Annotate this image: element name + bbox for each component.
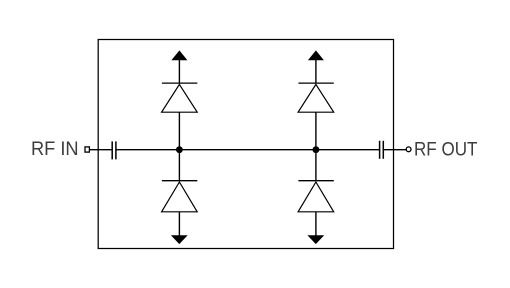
arrow terminal down (branch 1 bottom) (171, 235, 188, 244)
wire: C1 to node A and node B (116, 149, 380, 151)
diode D3 anode triangle (298, 84, 334, 112)
capacitor C2 (380, 141, 384, 159)
svg-text:RF IN: RF IN (31, 139, 79, 160)
wire: arrow to D1 cathode (178, 60, 180, 84)
wire: node A to D2 cathode (178, 150, 180, 181)
diode D4 cathode bar (298, 180, 333, 182)
wire: D1 anode to node A (178, 112, 180, 150)
package outline (98, 40, 393, 249)
arrow terminal up (branch 1 top) (171, 50, 187, 60)
capacitor C1 (112, 141, 116, 159)
wire: D2 anode to bottom arrow (178, 212, 180, 236)
node A (junction dot) (176, 146, 183, 153)
diode D1 cathode bar (162, 82, 197, 84)
wire: C2 to RF OUT pin (383, 149, 406, 151)
terminal RF OUT (round pin) (406, 147, 411, 152)
diode D2 anode triangle (162, 182, 198, 212)
diode D3 cathode bar (298, 82, 333, 84)
arrow terminal up (branch 2 top) (308, 50, 324, 60)
wire: RF IN pin to C1 (89, 149, 112, 151)
node B (junction dot) (313, 146, 320, 153)
diode D1 anode triangle (162, 84, 198, 112)
wire: D4 anode to bottom arrow (315, 212, 317, 236)
wire: D3 anode to node B (315, 112, 317, 150)
terminal RF IN (square pin) (85, 147, 89, 152)
wire: arrow to D3 cathode (315, 60, 317, 84)
diode D4 anode triangle (298, 182, 334, 212)
svg-text:RF OUT: RF OUT (414, 139, 478, 160)
diode D2 cathode bar (162, 180, 197, 182)
wire: node B to D4 cathode (315, 150, 317, 181)
arrow terminal down (branch 2 bottom) (307, 235, 324, 244)
